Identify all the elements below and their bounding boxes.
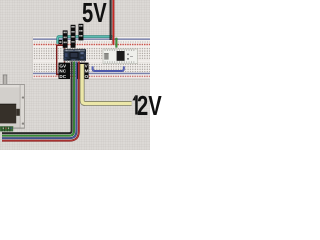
breadboard top red rail holes — [34, 44, 150, 46]
stepper motor screw top — [22, 96, 25, 99]
pin label box lower-right — [76, 63, 89, 79]
pin label tower 3 — [79, 24, 84, 41]
stepper motor dark center band — [0, 104, 20, 124]
stepper motor M1 shaft — [3, 75, 7, 85]
wire: black 5V ground, vertical from top — [110, 0, 112, 40]
motor wire bundle: black — [2, 62, 72, 134]
breadboard top blue rail line — [33, 38, 150, 40]
breadboard body — [32, 36, 150, 79]
maroon power loop wire — [57, 45, 65, 74]
breadboard main holes top block — [33, 47, 150, 59]
breadboard main holes bottom block — [33, 63, 150, 72]
motor wire bundle: blue — [2, 62, 76, 139]
stepper motor screw bottom — [22, 122, 25, 125]
wire: yellow 12V — [82, 64, 132, 103]
microcontroller board U2 — [103, 49, 138, 64]
breadboard bottom blue rail line — [33, 73, 150, 75]
svg-text:DC: DC — [59, 74, 66, 79]
motor wire bundle: red — [2, 62, 79, 141]
wire: red 5V supply, vertical from top — [112, 0, 114, 45]
stepper motor M1 body — [0, 84, 25, 129]
pin label tower 1 — [63, 30, 68, 47]
wire: teal signal horizontal — [58, 37, 112, 44]
motor wire bundle: green — [2, 62, 74, 136]
svg-text:O: O — [85, 74, 89, 79]
label 5V — [82, 0, 107, 27]
pin label tower 2 — [71, 25, 76, 48]
breadboard top rail holes row — [34, 41, 150, 43]
pin label box lower-left — [59, 63, 71, 79]
breadboard bottom red rail holes — [34, 75, 150, 77]
pin label small box — [59, 40, 63, 44]
center channel lines — [32, 59, 150, 62]
stepper motor green connector — [0, 126, 13, 131]
label 12V — [137, 92, 162, 120]
driver module U1 — [64, 49, 87, 62]
wire: green jumper near rail — [115, 38, 117, 48]
wire: blue jumper to MCU — [93, 66, 124, 71]
